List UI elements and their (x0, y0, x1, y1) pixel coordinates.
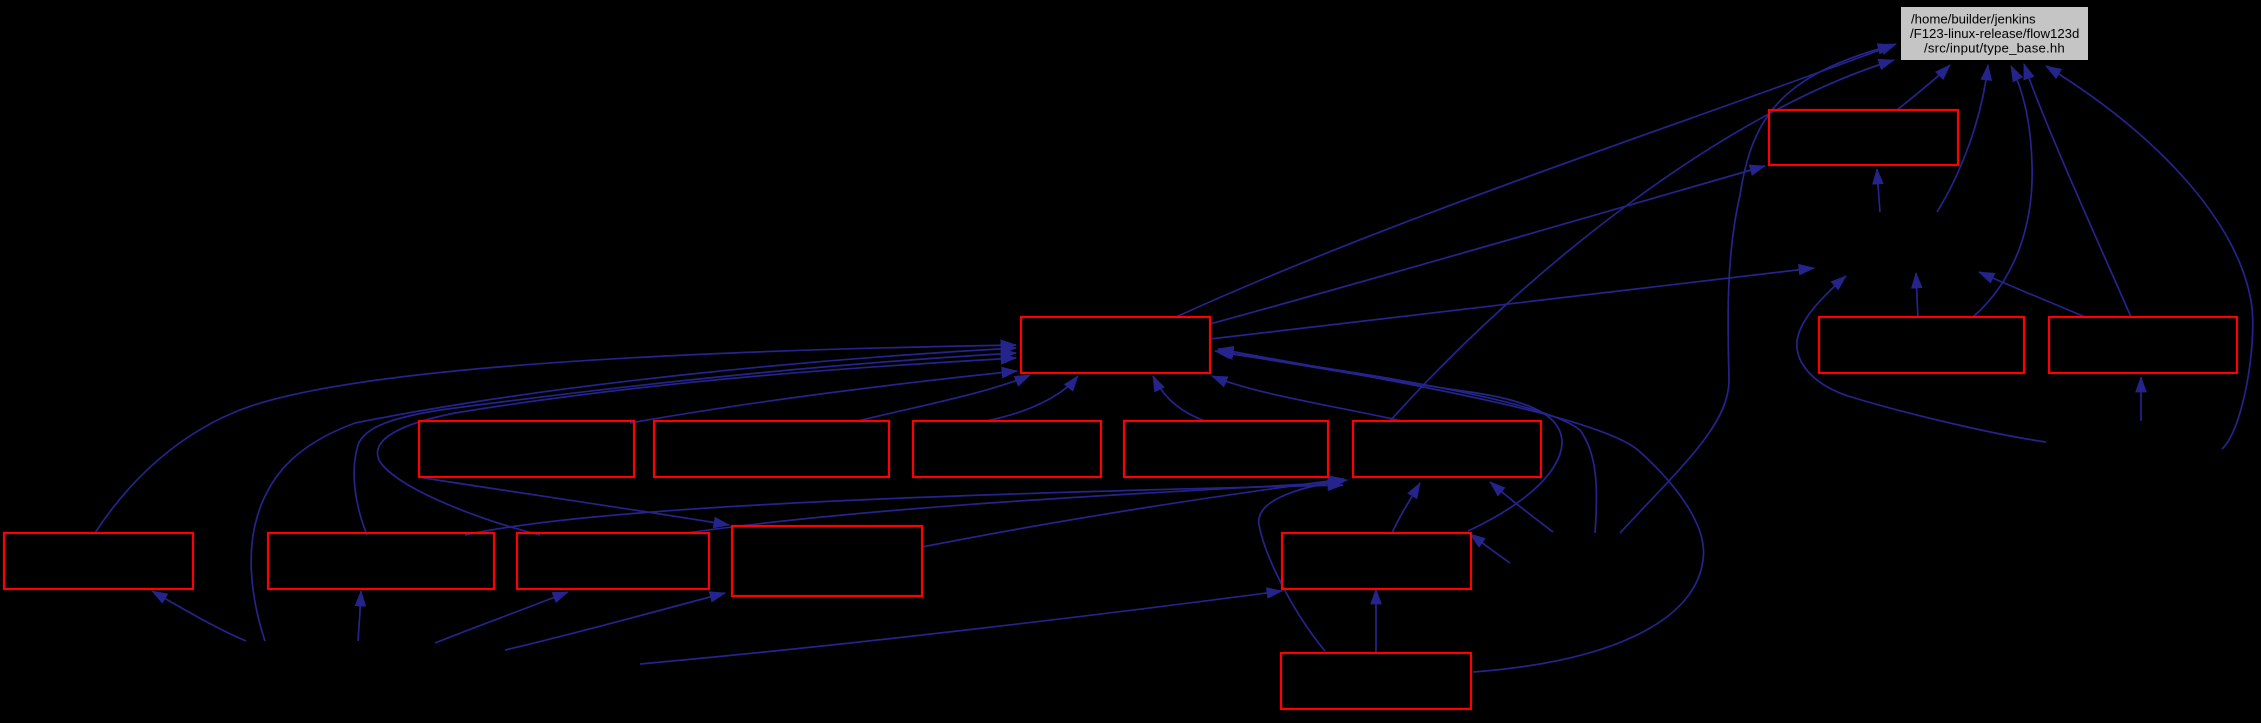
wire V3 to N (505, 593, 725, 650)
node O (1282, 533, 1471, 589)
wire C to V1 (1210, 268, 1814, 339)
node M (517, 533, 709, 589)
svg-text:/home/builder/jenkins: /home/builder/jenkins (1911, 11, 2036, 26)
wire B to A (1897, 65, 1950, 110)
wire V1 to A (1937, 65, 1988, 212)
wire E to V1 (1979, 272, 2085, 317)
node G (654, 421, 889, 477)
wire P to C (1218, 349, 1704, 672)
wire V2 to A (1620, 45, 1893, 533)
wire D to V1 (1916, 273, 1918, 317)
wire O to C (1218, 352, 1562, 531)
wire G to C (858, 375, 1030, 421)
wire P to O (1375, 589, 1377, 653)
node A /home/builder/jenkins /F123-linux-release/flow123d /src/input/type_base.hh (1901, 7, 2088, 60)
wire K to C (95, 345, 1016, 533)
wire C to A (1176, 44, 1896, 317)
wire V4 to A (2046, 66, 2253, 449)
wire L to J (465, 485, 1343, 535)
wire V3 to K (152, 591, 246, 641)
wire I to C (1153, 376, 1205, 421)
wire H to C (986, 376, 1078, 421)
wire V4 to E (2140, 377, 2142, 421)
wire M to J (686, 482, 1343, 533)
wire J to C (1212, 376, 1402, 421)
wire E to A (2024, 64, 2131, 317)
wire M to C (378, 358, 1016, 535)
node L (268, 533, 494, 589)
node N (732, 526, 922, 596)
wire V4 to V1 (1797, 276, 2046, 442)
wire V2 to O (1470, 534, 1510, 563)
wire V2 to J (1490, 482, 1553, 532)
wire D to A (1973, 66, 2032, 317)
svg-text:/src/input/type_base.hh: /src/input/type_base.hh (1924, 40, 2065, 55)
node P (1281, 653, 1471, 709)
node E (2049, 317, 2237, 373)
wire F to C (630, 371, 1017, 423)
node F (419, 421, 634, 477)
node J (1353, 421, 1541, 477)
node D (1819, 317, 2024, 373)
wire V3 to M (435, 592, 568, 643)
wire L to C (354, 353, 1016, 535)
node B (1769, 110, 1958, 165)
wire C to B (1210, 166, 1765, 324)
node C (1021, 317, 1210, 373)
node K (4, 533, 193, 589)
wire V2 to C (1215, 351, 1596, 533)
wire V1 to B (1877, 169, 1880, 212)
wire V3 to O (640, 591, 1282, 664)
wire F to N (424, 478, 729, 525)
wire V3 to L (358, 591, 361, 641)
wire V3 to C (251, 348, 1016, 641)
node H (913, 421, 1101, 477)
wire O to J (1392, 483, 1420, 533)
wire P to J (1259, 480, 1347, 651)
svg-text:/F123-linux-release/flow123d: /F123-linux-release/flow123d (1910, 26, 2079, 41)
wire J to A (1390, 60, 1894, 421)
node I (1124, 421, 1328, 477)
wire N to J (922, 479, 1344, 547)
